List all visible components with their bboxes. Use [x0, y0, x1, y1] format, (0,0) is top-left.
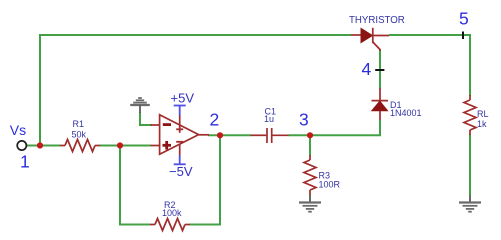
svg-text:THYRISTOR: THYRISTOR — [349, 15, 405, 26]
svg-text:100R: 100R — [319, 180, 341, 190]
junction node 2 — [217, 132, 223, 138]
svg-text:100k: 100k — [162, 208, 182, 218]
junction node 3 — [307, 132, 313, 138]
svg-text:4: 4 — [362, 59, 372, 79]
terminal Vs — [17, 141, 26, 150]
wire: top horizontal from left corner to thyristor anode — [40, 35, 351, 146]
wire: R3 bottom to ground — [309, 195, 311, 197]
ground (below R3) — [299, 196, 321, 212]
wire: thyristor gate to D1 cathode — [379, 50, 381, 89]
svg-text:2: 2 — [210, 109, 220, 129]
op-amp U1 — [151, 115, 210, 156]
junction R1/feedback — [117, 142, 123, 148]
svg-text:Vs: Vs — [10, 122, 26, 138]
resistor R1 — [60, 140, 100, 152]
svg-text:5: 5 — [459, 9, 469, 29]
power -5V — [169, 155, 193, 179]
resistor R3 — [304, 155, 316, 195]
svg-text:−5V: −5V — [169, 164, 193, 179]
svg-text:3: 3 — [299, 109, 309, 129]
wire: C1 to node 3 to D1 corner — [289, 120, 381, 135]
power +5V — [171, 91, 195, 116]
power pin lines inside — [179, 115, 181, 126]
wire: RL bottom to ground — [469, 134, 471, 196]
tick node 5 — [462, 32, 464, 40]
svg-text:1u: 1u — [264, 114, 274, 124]
tick node 4 — [375, 69, 384, 71]
wire: thyristor cathode to node 5 corner and down to RL — [389, 35, 470, 96]
svg-text:1: 1 — [20, 152, 30, 172]
wire: feedback loop node2 down through R2 up to node1 junction — [190, 135, 221, 224]
wire: ground to op-amp - input — [140, 112, 152, 125]
resistor R2 — [150, 219, 190, 231]
ground (below RL) — [459, 196, 481, 212]
power markers — [176, 128, 183, 130]
svg-text:1k: 1k — [477, 119, 487, 129]
pin stubs — [151, 124, 160, 126]
svg-text:50k: 50k — [72, 129, 87, 139]
capacitor C1 — [251, 128, 289, 143]
ground (op-amp - input) flipped — [130, 98, 150, 113]
svg-text:RL: RL — [477, 109, 489, 119]
wire: input terminal to R1 — [27, 145, 61, 147]
thyristor — [351, 28, 389, 51]
svg-text:+5V: +5V — [171, 91, 195, 106]
input markers — [163, 123, 171, 126]
svg-text:R1: R1 — [73, 119, 85, 129]
diode D1 — [372, 88, 389, 120]
junction node 1 — [37, 142, 43, 148]
wire: op-amp output node 2 to C1 — [208, 134, 251, 136]
wire: node 3 down to R3 — [309, 135, 311, 155]
wire: R1 right to op-amp + input — [100, 145, 152, 147]
wire: R2 left to vertical riser to R1 junction — [120, 146, 151, 225]
svg-text:1N4001: 1N4001 — [390, 108, 422, 118]
resistor RL — [464, 95, 476, 135]
